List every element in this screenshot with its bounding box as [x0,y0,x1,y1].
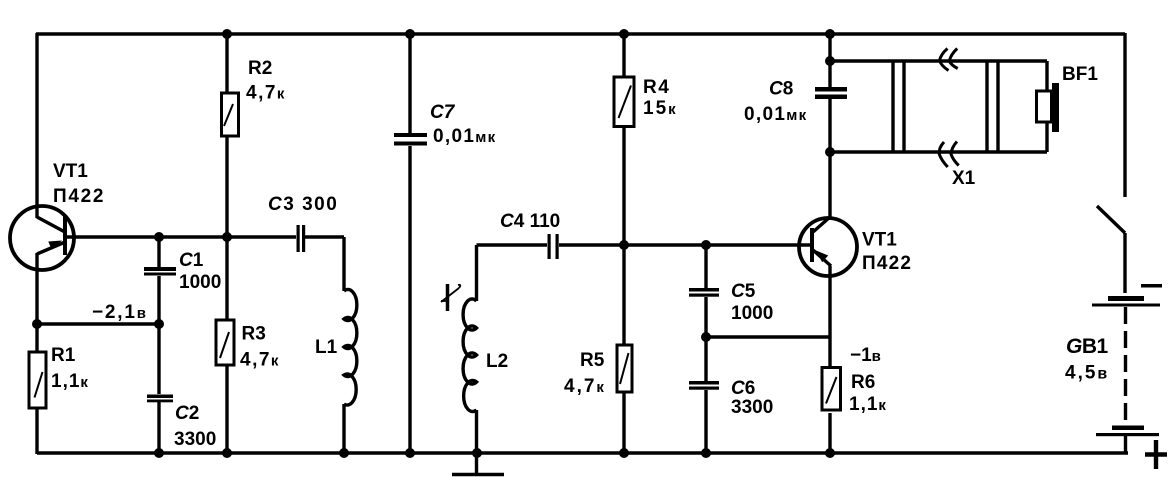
svg-text:4,5в: 4,5в [1065,363,1109,384]
svg-text:R3: R3 [242,324,266,345]
svg-text:R5: R5 [580,350,605,371]
svg-text:15к: 15к [643,98,678,119]
svg-text:4,7к: 4,7к [564,376,606,397]
svg-text:VT1: VT1 [53,161,88,182]
svg-text:GB1: GB1 [1066,335,1109,358]
svg-text:1,1к: 1,1к [849,394,887,415]
svg-text:C5: C5 [731,281,756,302]
svg-text:1000: 1000 [731,303,773,324]
svg-text:П422: П422 [862,253,912,274]
svg-text:−2,1в: −2,1в [92,302,148,323]
svg-text:VT1: VT1 [862,230,897,251]
svg-text:1,1к: 1,1к [51,371,89,392]
svg-text:X1: X1 [952,168,976,189]
svg-text:C3 300: C3 300 [268,194,338,215]
svg-text:C1: C1 [179,250,204,271]
svg-text:3300: 3300 [731,397,773,418]
svg-text:R4: R4 [643,77,670,98]
svg-text:0,01мк: 0,01мк [744,104,807,125]
svg-text:R6: R6 [851,372,875,393]
svg-text:C2: C2 [175,403,199,424]
svg-text:3300: 3300 [174,429,216,450]
svg-text:C7: C7 [430,102,456,123]
svg-text:C8: C8 [769,79,793,100]
svg-text:R2: R2 [248,58,272,79]
svg-text:4,7к: 4,7к [246,83,286,104]
svg-text:BF1: BF1 [1062,64,1098,85]
svg-text:C6: C6 [731,378,755,399]
svg-text:C4 110: C4 110 [500,211,560,232]
svg-text:L2: L2 [486,351,508,372]
svg-text:L1: L1 [315,337,338,358]
svg-text:0,01мк: 0,01мк [433,126,496,147]
svg-text:−1в: −1в [850,345,881,366]
svg-text:R1: R1 [51,345,76,366]
svg-text:1000: 1000 [179,272,221,293]
svg-text:П422: П422 [53,186,105,207]
svg-text:4,7к: 4,7к [240,350,280,371]
